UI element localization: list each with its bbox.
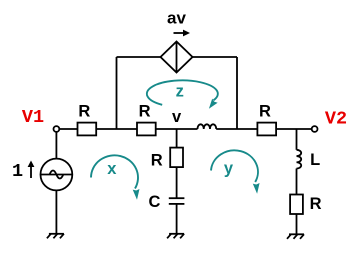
svg-text:V1: V1 — [22, 107, 44, 128]
svg-text:R: R — [78, 103, 90, 121]
svg-text:L: L — [310, 151, 320, 169]
svg-text:R: R — [151, 152, 163, 170]
wire inductor to R3 — [216, 128, 257, 130]
mesh arrow z — [147, 80, 218, 104]
wire top loop right vertical — [236, 57, 238, 129]
capacitor C — [169, 197, 185, 199]
wire right branch down — [296, 129, 298, 150]
wire main horizontal left segment — [59, 128, 77, 130]
terminal V1 (open circle) — [54, 126, 60, 132]
arrow above av source — [174, 30, 191, 37]
svg-text:x: x — [107, 160, 117, 178]
wire source to ground — [55, 190, 57, 233]
wire capacitor to ground — [176, 204, 178, 234]
wire top loop left vertical — [116, 57, 118, 129]
svg-text:av: av — [167, 9, 186, 28]
current direction arrow (1) — [28, 161, 35, 179]
svg-text:R: R — [259, 103, 271, 121]
wire R3 to V2 terminal — [276, 128, 312, 130]
wire R to ground — [296, 214, 298, 234]
wire middle R to capacitor — [176, 167, 178, 198]
svg-text:z: z — [176, 83, 184, 101]
wire V1 terminal down to source — [55, 132, 57, 159]
svg-text:1: 1 — [12, 161, 23, 182]
svg-text:R: R — [139, 103, 151, 121]
svg-text:y: y — [224, 160, 234, 178]
source circle (1, AC) — [41, 159, 73, 191]
mesh arrow y — [211, 150, 258, 182]
svg-text:V2: V2 — [325, 109, 347, 130]
wire top loop horizontal right — [193, 56, 238, 58]
inductor (horizontal, right of node v) — [198, 124, 217, 129]
svg-text:C: C — [149, 193, 161, 211]
resistor R (left, between V1 and node) — [78, 123, 97, 136]
ground (left) — [47, 234, 64, 239]
wire R2 to inductor — [156, 128, 198, 130]
resistor R (right branch, vertical) — [290, 195, 303, 215]
terminal V2 (open circle) — [312, 126, 318, 132]
dependent source diamond (av) — [161, 42, 193, 73]
inductor L (right branch, vertical) — [297, 150, 302, 169]
ground (middle) — [167, 234, 184, 239]
ground (right) — [287, 234, 304, 239]
wire between R1 and R2 — [96, 128, 137, 130]
mesh arrow x — [91, 155, 138, 188]
resistor R (right, before V2) — [257, 123, 276, 136]
svg-text:R: R — [310, 195, 322, 213]
svg-text:v: v — [172, 108, 182, 126]
wire node v down to middle R — [176, 129, 178, 148]
wire L to R — [296, 169, 298, 195]
resistor R (second, left of node v) — [137, 123, 156, 136]
wire top loop horizontal left — [117, 56, 161, 58]
resistor R (middle branch, vertical) — [170, 148, 183, 168]
